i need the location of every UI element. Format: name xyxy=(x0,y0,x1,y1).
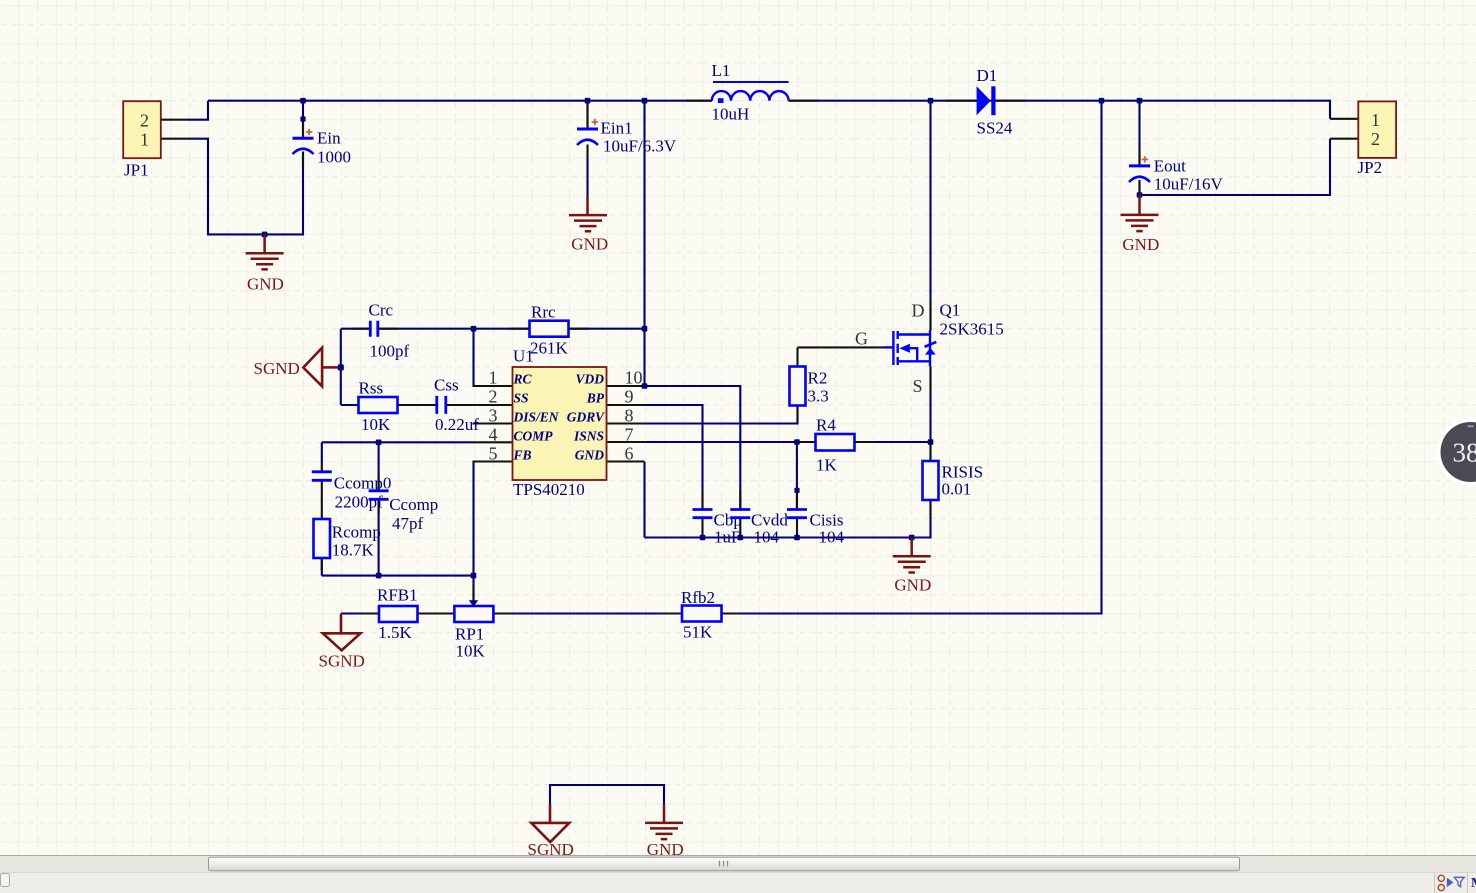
svg-text:GND: GND xyxy=(575,448,604,463)
wire BP pin9 to Cbp xyxy=(627,405,703,509)
pin L1 right xyxy=(789,100,819,102)
pin RFB1 left xyxy=(361,612,380,614)
svg-text:RC: RC xyxy=(513,372,533,387)
svg-text:1.5K: 1.5K xyxy=(378,623,412,642)
svg-text:TPS40210: TPS40210 xyxy=(513,480,585,499)
ground GND bottom pair xyxy=(645,804,683,839)
pin JP1 pin1 xyxy=(161,138,190,140)
wire Rcomp bottom xyxy=(321,558,323,576)
pin Eout segments xyxy=(1138,148,1140,195)
wire VDD vertical rail to pin10 xyxy=(643,101,645,386)
ground SGND bottom pair xyxy=(531,804,569,842)
wire GDRV pin8 to R2 xyxy=(627,406,798,424)
wire Ein top pin xyxy=(302,101,304,138)
svg-text:GND: GND xyxy=(1122,235,1159,254)
ground GND under Ein1 xyxy=(569,197,607,231)
wire compensation bottom row xyxy=(322,575,474,577)
pin U1 pin10 xyxy=(607,385,645,387)
svg-text:10: 10 xyxy=(625,368,643,388)
pin JP1 pin2 xyxy=(161,119,190,121)
status bar xyxy=(0,872,1476,893)
wire Q1 drain vertical xyxy=(929,101,931,331)
svg-text:38: 38 xyxy=(1453,438,1476,468)
pin L1 left xyxy=(686,100,712,102)
ground SGND under RFB1 xyxy=(323,614,361,651)
wire VDD branch to Cvdd xyxy=(645,386,741,509)
svg-text:47pf: 47pf xyxy=(392,514,424,533)
pin JP2 pin1 xyxy=(1330,118,1358,120)
pin JP2 pin2 xyxy=(1330,138,1358,140)
svg-text:Q1: Q1 xyxy=(940,301,961,320)
pin D1 cathode xyxy=(996,100,1027,102)
pin Rrc sides xyxy=(510,328,588,330)
wire Rss left xyxy=(341,404,359,406)
svg-text:51K: 51K xyxy=(683,623,713,642)
svg-text:JP1: JP1 xyxy=(124,161,149,180)
pin Rfb2 right xyxy=(722,612,742,614)
pin Ccomp segments xyxy=(378,476,380,514)
svg-text:Css: Css xyxy=(434,376,459,395)
svg-text:0.01: 0.01 xyxy=(942,480,972,499)
capacitor Cisis xyxy=(787,510,845,547)
wire bottom ground rail xyxy=(645,500,931,538)
svg-text:VDD: VDD xyxy=(575,372,604,387)
connector JP1 xyxy=(123,101,161,179)
capacitor Eout xyxy=(1129,156,1223,193)
svg-text:7: 7 xyxy=(625,425,634,445)
svg-text:9: 9 xyxy=(625,387,634,407)
potentiometer RP1 xyxy=(454,600,493,660)
svg-text:1: 1 xyxy=(140,130,149,150)
svg-text:GDRV: GDRV xyxy=(567,410,605,425)
svg-text:1000: 1000 xyxy=(317,148,351,167)
capacitor Crc xyxy=(369,301,410,361)
svg-text:GND: GND xyxy=(894,576,931,595)
svg-text:6: 6 xyxy=(625,444,634,464)
overlay badge 38 xyxy=(1439,420,1476,484)
pin RISIS top xyxy=(929,442,931,461)
wire top rail Vin to JP2 pin1 xyxy=(208,101,1330,119)
svg-text:SS24: SS24 xyxy=(977,119,1013,138)
pin U1 pin3 xyxy=(473,422,513,424)
wire Crc Rrc row xyxy=(341,328,645,330)
inductor L1 xyxy=(712,61,789,124)
pin U1 pin7 xyxy=(607,441,647,443)
svg-text:GND: GND xyxy=(571,235,608,254)
pin Rcomp bottom xyxy=(321,558,323,570)
svg-text:100pf: 100pf xyxy=(370,342,410,361)
pin RISIS bottom xyxy=(929,500,931,519)
capacitor Css xyxy=(434,376,479,435)
svg-text:M: M xyxy=(1471,876,1476,891)
pin Cisis segments xyxy=(796,490,798,537)
svg-text:2200pf: 2200pf xyxy=(335,493,384,512)
svg-text:FB: FB xyxy=(513,448,532,463)
ground SGND left arrow xyxy=(303,348,338,387)
svg-text:DIS/EN: DIS/EN xyxy=(513,410,560,425)
horizontal scrollbar xyxy=(0,856,1476,873)
resistor R2 xyxy=(790,367,829,406)
wire ISNS pin7 to R4 xyxy=(627,441,797,443)
pin U1 pin8 xyxy=(607,422,647,424)
svg-text:261K: 261K xyxy=(530,339,569,358)
svg-text:0.22uf: 0.22uf xyxy=(435,415,479,434)
svg-text:2: 2 xyxy=(1371,129,1380,149)
pin U1 pin5 xyxy=(473,460,513,462)
capacitor Ccomp xyxy=(369,491,439,533)
svg-text:Ein1: Ein1 xyxy=(601,119,633,138)
pin RP1 right xyxy=(494,612,514,614)
wire SGND left vertical xyxy=(340,329,342,405)
svg-text:4: 4 xyxy=(489,425,498,445)
transistor Q1 2SK3615 xyxy=(884,331,936,367)
wire Eout bottom to JP2 pin2 xyxy=(1140,139,1331,195)
svg-text:2: 2 xyxy=(140,111,149,131)
ground GND bottom middle xyxy=(893,538,931,573)
wire Ein1 top pin xyxy=(586,101,588,197)
capacitor Ein1 xyxy=(577,119,677,156)
wire Ccomp vertical xyxy=(378,442,380,575)
svg-text:G: G xyxy=(855,329,868,349)
pin Crc sides xyxy=(352,328,398,330)
pin Ccomp0 top xyxy=(321,462,323,472)
svg-text:Crc: Crc xyxy=(369,301,394,320)
svg-text:10uF/6.3V: 10uF/6.3V xyxy=(603,137,677,156)
capacitor Ein xyxy=(293,129,352,167)
pin RP1 wiper xyxy=(472,586,474,601)
resistor Rfb2 xyxy=(681,588,722,642)
svg-text:Rfb2: Rfb2 xyxy=(681,588,715,607)
svg-text:Ein: Ein xyxy=(317,129,341,148)
svg-text:JP2: JP2 xyxy=(1358,158,1383,177)
svg-text:1: 1 xyxy=(489,368,498,388)
pin R4 right xyxy=(855,441,875,443)
svg-text:SS: SS xyxy=(514,391,529,406)
capacitor Ccomp0 xyxy=(312,472,392,512)
svg-text:3.3: 3.3 xyxy=(808,387,829,406)
svg-text:1uF: 1uF xyxy=(714,528,740,547)
svg-text:Rss: Rss xyxy=(359,379,384,398)
pin Q1 source xyxy=(929,366,931,396)
pin U1 pin6 xyxy=(607,460,645,462)
pin D1 anode xyxy=(947,100,977,102)
wire R4 to source node xyxy=(855,441,931,443)
resistor Rrc xyxy=(530,303,569,358)
capacitor Cbp xyxy=(693,510,742,547)
resistor Rcomp xyxy=(314,519,381,560)
wire Ccomp0 top xyxy=(321,442,323,462)
ground GND under Eout xyxy=(1121,195,1159,231)
op-amp U1 TPS40210 body xyxy=(489,347,643,500)
svg-text:1: 1 xyxy=(1371,110,1380,130)
svg-text:5: 5 xyxy=(489,444,498,464)
pin Rfb2 left xyxy=(662,612,682,614)
svg-text:Ccomp: Ccomp xyxy=(389,495,438,514)
wire GND pin6 vertical xyxy=(643,462,645,538)
svg-text:L1: L1 xyxy=(712,61,731,80)
wire Eout top pin xyxy=(1138,101,1140,165)
pin Cbp segments xyxy=(701,491,703,538)
pin Rss right with Css xyxy=(398,404,437,406)
pin RFB1-RP1 link xyxy=(417,612,454,614)
svg-text:R4: R4 xyxy=(816,416,836,435)
pin Ccomp0 bottom to Rcomp xyxy=(321,481,323,520)
svg-text:D: D xyxy=(912,301,925,321)
svg-text:2: 2 xyxy=(489,387,498,407)
wire JP1 pin2 to rail xyxy=(190,101,209,120)
svg-text:104: 104 xyxy=(819,528,845,547)
pin Ein1 segments xyxy=(586,104,588,158)
diode D1 SS24 xyxy=(977,66,1013,138)
svg-text:R2: R2 xyxy=(808,369,828,388)
svg-text:104: 104 xyxy=(754,528,780,547)
wire pin1 RC vertical xyxy=(472,329,474,386)
svg-text:2SK3615: 2SK3615 xyxy=(940,320,1004,339)
connector JP2 xyxy=(1358,101,1397,176)
svg-text:10uH: 10uH xyxy=(712,105,750,124)
pin U1 pin1 xyxy=(473,385,513,387)
wire Q1 gate G xyxy=(798,346,885,348)
svg-text:COMP: COMP xyxy=(514,429,554,444)
pin Ein segments xyxy=(302,119,304,167)
wire Q1 source to RISIS xyxy=(929,366,931,461)
svg-text:SGND: SGND xyxy=(319,652,365,671)
svg-text:BP: BP xyxy=(586,391,605,406)
svg-text:Rrc: Rrc xyxy=(531,303,556,322)
resistor RISIS xyxy=(923,461,984,500)
svg-text:Eout: Eout xyxy=(1154,157,1186,176)
svg-text:10K: 10K xyxy=(361,415,391,434)
wire feedback row SGND to Rfb2 xyxy=(341,612,682,614)
svg-text:GND: GND xyxy=(247,275,284,294)
svg-text:1K: 1K xyxy=(816,456,838,475)
resistor RFB1 xyxy=(377,586,418,643)
pin Q1 drain xyxy=(929,300,931,331)
pin R2 bottom xyxy=(796,406,798,424)
svg-text:RFB1: RFB1 xyxy=(377,586,418,605)
svg-text:10K: 10K xyxy=(456,642,486,661)
svg-text:8: 8 xyxy=(625,406,634,426)
pin U1 pin4 xyxy=(473,441,513,443)
wire COMP row xyxy=(322,441,473,443)
wire FB pin5 vertical to wiper xyxy=(472,462,474,602)
ground GND under Ein xyxy=(246,234,284,269)
pin Cvdd segments xyxy=(739,491,741,538)
svg-text:SGND: SGND xyxy=(254,359,300,378)
pin U1 pin2 with Css link xyxy=(446,404,513,406)
svg-text:10uF/16V: 10uF/16V xyxy=(1154,175,1224,194)
svg-text:D1: D1 xyxy=(977,66,998,85)
svg-text:ISNS: ISNS xyxy=(573,429,604,444)
pin R2 top xyxy=(796,347,798,366)
pin U1 pin9 xyxy=(607,404,647,406)
svg-text:S: S xyxy=(913,376,923,396)
wire Cisis vertical xyxy=(796,442,798,509)
wire JP1 pin1 to Ein bottom xyxy=(190,139,304,235)
wire output vertical to Rfb2 xyxy=(722,101,1102,614)
svg-text:Rcomp: Rcomp xyxy=(332,523,381,542)
pin R4 left xyxy=(797,441,816,443)
svg-text:18.7K: 18.7K xyxy=(332,541,375,560)
wire bottom SGND-GND bracket xyxy=(550,785,664,804)
svg-text:3: 3 xyxy=(489,406,498,426)
resistor R4 xyxy=(816,416,855,475)
resistor Rss xyxy=(359,379,398,435)
capacitor Cvdd xyxy=(730,510,788,547)
